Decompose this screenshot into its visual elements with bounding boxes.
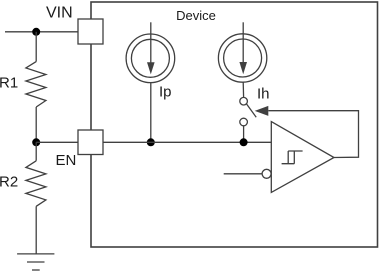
svg-text:Ih: Ih xyxy=(257,86,270,103)
wire divider to EN pin xyxy=(36,141,78,143)
switch S1 top contact xyxy=(240,97,248,105)
pin EN pad square xyxy=(78,130,103,155)
current source Ip xyxy=(126,22,175,82)
node switch junction dot xyxy=(240,138,248,146)
ground xyxy=(17,254,54,270)
svg-text:Ip: Ip xyxy=(159,84,172,101)
resistor R1 xyxy=(26,62,46,107)
node VIN junction dot xyxy=(32,28,40,36)
wire feedback loop xyxy=(268,111,358,158)
wire R1 bottom lead xyxy=(35,107,37,142)
wire Ip to EN rail xyxy=(150,83,152,143)
svg-text:Device: Device xyxy=(176,8,216,23)
switch S1 bottom contact xyxy=(240,118,248,126)
hysteresis symbol xyxy=(282,151,303,164)
current source Ih xyxy=(218,22,266,82)
wire VIN input from left edge xyxy=(5,31,78,33)
svg-text:EN: EN xyxy=(56,152,77,169)
wire EN rail to comparator xyxy=(103,141,271,143)
comparator U2 xyxy=(271,122,334,193)
inverting input bubble xyxy=(262,169,271,178)
switch S1 blade xyxy=(246,104,256,118)
wire R2 bottom lead xyxy=(35,206,37,254)
svg-text:R2: R2 xyxy=(0,174,18,191)
wire R1 top lead xyxy=(35,32,37,62)
wire inverting input xyxy=(224,173,262,175)
feedback arrowhead xyxy=(255,106,269,116)
svg-text:R1: R1 xyxy=(0,75,18,92)
svg-text:VIN: VIN xyxy=(46,5,73,22)
device boundary box U1 xyxy=(91,2,378,247)
pin VIN pad square xyxy=(78,19,103,44)
wire switch to EN rail xyxy=(243,126,245,143)
node EN divider junction dot xyxy=(32,138,40,146)
wire R2 top lead xyxy=(35,142,37,161)
wire Ih to switch xyxy=(242,82,244,97)
resistor R2 xyxy=(26,161,46,207)
node Ip junction dot xyxy=(147,138,155,146)
